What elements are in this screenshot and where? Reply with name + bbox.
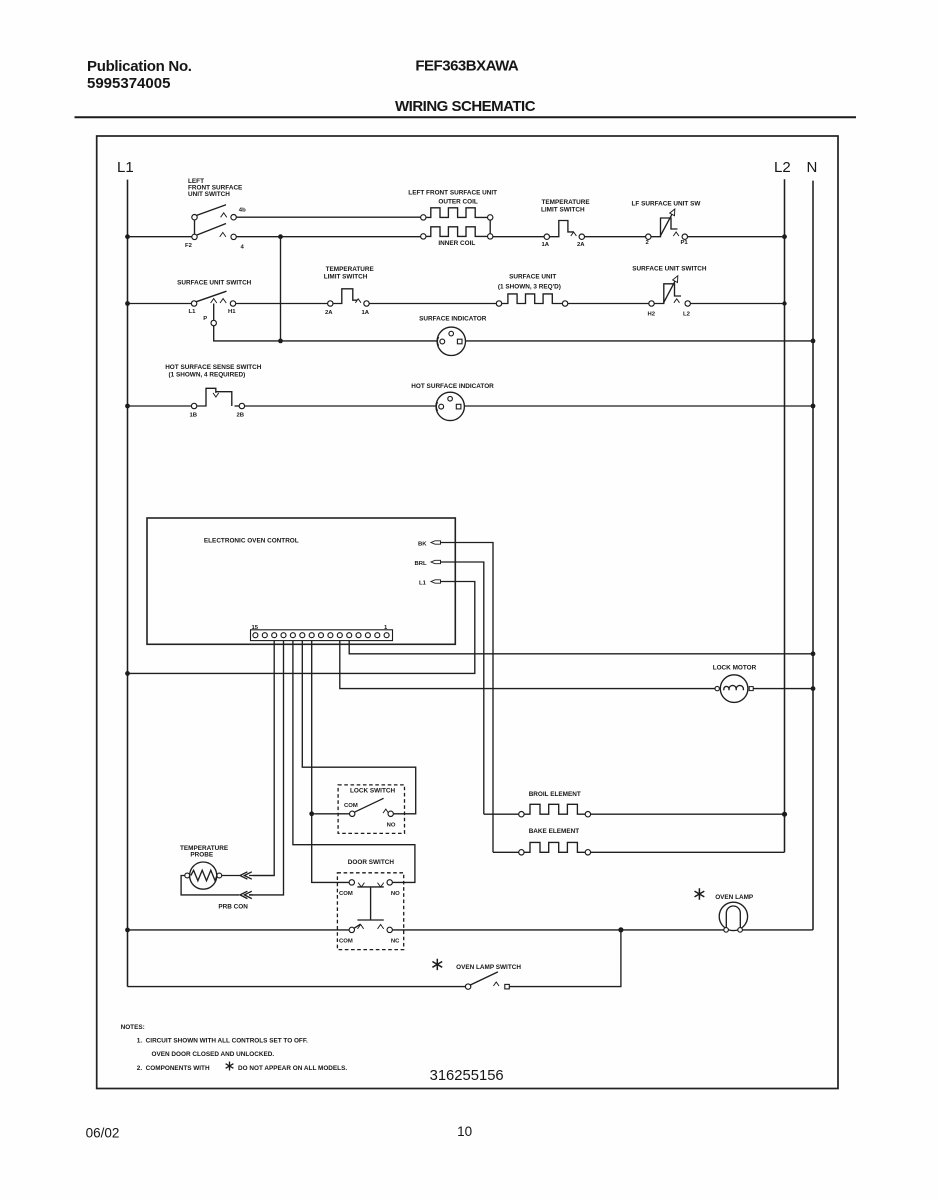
wire row3 hot surface line: [128, 405, 814, 407]
svg-text:TEMPERATURE: TEMPERATURE: [326, 266, 375, 273]
wire probe upper line chevron gap fill: [222, 875, 275, 877]
wire pin10 to lock switch NO: [302, 641, 415, 814]
junction oven lamp line at L1: [125, 928, 130, 933]
connector PRB CON chevrons: [218, 872, 251, 911]
svg-text:OVEN LAMP SWITCH: OVEN LAMP SWITCH: [456, 964, 521, 971]
wire P branch down to indicator line: [214, 304, 281, 341]
svg-text:1B: 1B: [190, 413, 198, 419]
wire oven lamp line from L1 to N: [128, 929, 812, 931]
svg-text:HOT SURFACE SENSE SWITCH: HOT SURFACE SENSE SWITCH: [165, 364, 262, 371]
resistor broil element: [484, 791, 785, 817]
pin 2: [375, 633, 380, 638]
pin 3: [365, 633, 370, 638]
svg-text:(1 SHOWN, 3 REQ'D): (1 SHOWN, 3 REQ'D): [498, 283, 561, 290]
asterisk for oven lamp: [695, 888, 705, 899]
svg-text:BK: BK: [418, 541, 427, 547]
wire surface indicator line to N: [281, 340, 814, 342]
svg-text:WIRING SCHEMATIC: WIRING SCHEMATIC: [395, 98, 536, 115]
svg-text:DOOR SWITCH: DOOR SWITCH: [348, 859, 395, 866]
svg-text:H2: H2: [648, 311, 656, 317]
svg-text:Publication No.: Publication No.: [87, 58, 192, 75]
svg-text:H1: H1: [228, 309, 236, 315]
junction row3 at N: [811, 404, 816, 409]
switch temperature limit switch row2: [324, 266, 375, 306]
svg-text:(1 SHOWN, 4 REQUIRED): (1 SHOWN, 4 REQUIRED): [169, 372, 246, 379]
junction pin9 wire at lock switch COM line: [309, 811, 314, 816]
wire L1 rail: [127, 180, 129, 987]
svg-text:NO: NO: [387, 823, 396, 829]
svg-text:06/02: 06/02: [86, 1126, 120, 1141]
asterisk for oven lamp switch: [432, 959, 442, 970]
wire BRL down to broil line: [441, 562, 484, 814]
junction row2 at L2: [782, 301, 786, 305]
motor lock motor: [713, 665, 757, 703]
junction row3 at L1: [125, 404, 130, 409]
switch lock switch: [314, 785, 404, 834]
pin 5: [347, 633, 352, 638]
wire L1 output down and left to L1 rail: [128, 582, 475, 674]
svg-text:NOTES:: NOTES:: [121, 1024, 145, 1031]
svg-text:NO: NO: [391, 891, 400, 897]
svg-text:PRB CON: PRB CON: [218, 903, 248, 910]
svg-text:5995374005: 5995374005: [87, 75, 170, 92]
svg-text:NC: NC: [391, 938, 400, 944]
svg-text:P: P: [203, 316, 207, 322]
asterisk in note 2: [226, 1062, 234, 1071]
svg-text:LOCK SWITCH: LOCK SWITCH: [350, 787, 395, 794]
pin 4: [356, 633, 361, 638]
svg-text:DO NOT APPEAR ON ALL MODELS.: DO NOT APPEAR ON ALL MODELS.: [238, 1065, 347, 1072]
svg-text:LEFT FRONT SURFACE UNIT: LEFT FRONT SURFACE UNIT: [408, 190, 497, 197]
wire vertical from row1 junction to indicator line: [280, 237, 282, 341]
svg-text:15: 15: [252, 625, 259, 631]
junction surface indicator line at N: [811, 339, 816, 344]
svg-text:COM: COM: [339, 938, 353, 944]
svg-text:OVEN LAMP: OVEN LAMP: [715, 894, 754, 901]
wire pin9 to door switch COM: [312, 641, 349, 883]
terminal P contact: [211, 320, 216, 325]
svg-text:2A: 2A: [577, 242, 585, 248]
header rule: [75, 116, 857, 118]
wire row1 upper branch to outer coil: [236, 216, 420, 218]
resistor left front surface unit outer coil: [408, 190, 497, 220]
svg-text:COM: COM: [339, 891, 353, 897]
svg-text:2A: 2A: [325, 310, 333, 316]
connector BK output: [418, 541, 441, 548]
pin 14: [262, 633, 267, 638]
svg-text:LOCK MOTOR: LOCK MOTOR: [713, 665, 757, 672]
switch LF surface unit sw: [632, 201, 702, 240]
svg-text:2. COMPONENTS WITH: 2. COMPONENTS WITH: [137, 1065, 210, 1072]
wire pin11 to door switch NO: [293, 641, 415, 883]
pin 12: [281, 633, 286, 638]
junction oven lamp switch riser at lamp line: [618, 927, 623, 932]
svg-text:HOT SURFACE INDICATOR: HOT SURFACE INDICATOR: [411, 383, 494, 390]
wire pin12 to probe left: [181, 641, 283, 895]
svg-text:SURFACE INDICATOR: SURFACE INDICATOR: [419, 316, 487, 323]
pin 6: [337, 633, 342, 638]
svg-text:N: N: [807, 159, 818, 176]
svg-text:P1: P1: [681, 240, 689, 246]
connector BRL output: [415, 560, 441, 567]
svg-text:BAKE ELEMENT: BAKE ELEMENT: [529, 828, 580, 835]
switch oven lamp switch: [128, 930, 621, 989]
svg-text:L1: L1: [419, 580, 427, 586]
pin 1: [384, 633, 389, 638]
pin 8: [319, 633, 324, 638]
lamp hot surface indicator: [411, 383, 494, 421]
svg-text:UNIT SWITCH: UNIT SWITCH: [188, 191, 230, 198]
svg-text:ELECTRONIC OVEN CONTROL: ELECTRONIC OVEN CONTROL: [204, 538, 299, 545]
header publication number: [87, 58, 192, 92]
wire pin13 to probe right: [249, 641, 274, 876]
wire pin6 to lock motor line: [340, 641, 813, 689]
connector L1 output: [419, 580, 441, 587]
wire joining coil right terminals: [489, 220, 491, 234]
svg-text:SURFACE UNIT: SURFACE UNIT: [509, 274, 556, 281]
wire probe lower line chevron gap fill: [249, 894, 253, 896]
svg-text:LIMIT SWITCH: LIMIT SWITCH: [324, 273, 368, 280]
junction pin5 wire at N: [811, 651, 816, 656]
pin 15: [253, 633, 258, 638]
wire pin5 to N rail: [349, 641, 813, 654]
svg-text:1A: 1A: [542, 242, 550, 248]
svg-text:L1: L1: [189, 309, 197, 315]
svg-text:4b: 4b: [239, 208, 246, 214]
svg-text:INNER COIL: INNER COIL: [438, 240, 475, 247]
electronic oven control box: [147, 518, 455, 644]
resistor left front surface unit inner coil: [421, 227, 493, 247]
junction row1 at L2: [782, 234, 787, 239]
wire N rail: [812, 181, 814, 930]
svg-text:SURFACE UNIT SWITCH: SURFACE UNIT SWITCH: [177, 280, 252, 287]
svg-text:LIMIT SWITCH: LIMIT SWITCH: [541, 206, 585, 213]
switch temperature limit switch row1: [541, 199, 590, 239]
svg-text:PROBE: PROBE: [190, 851, 213, 858]
switch surface unit switch row2 right: [632, 266, 707, 307]
notes text: [121, 1024, 348, 1072]
pin 11: [290, 633, 295, 638]
svg-text:316255156: 316255156: [430, 1068, 504, 1084]
switch door switch: [337, 859, 403, 950]
switch left front surface unit switch (double pole): [188, 178, 243, 239]
svg-text:2B: 2B: [237, 413, 245, 419]
pin 13: [272, 633, 277, 638]
resistor bake element: [493, 828, 785, 855]
svg-text:F2: F2: [185, 243, 193, 249]
svg-text:L1: L1: [117, 159, 134, 176]
junction lock motor line at N: [811, 686, 816, 691]
wire row2 main: [128, 303, 785, 305]
connector strip P1 header: [251, 625, 393, 641]
svg-text:1A: 1A: [362, 310, 370, 316]
svg-text:10: 10: [457, 1124, 472, 1139]
resistor temperature probe: [180, 845, 229, 889]
schematic border frame: [97, 136, 838, 1089]
svg-text:FEF363BXAWA: FEF363BXAWA: [415, 58, 519, 75]
svg-text:OUTER COIL: OUTER COIL: [438, 199, 478, 206]
junction row2 at L1: [125, 301, 130, 306]
svg-text:L2: L2: [683, 311, 691, 317]
svg-text:OVEN DOOR CLOSED AND UNLOCKED.: OVEN DOOR CLOSED AND UNLOCKED.: [152, 1051, 275, 1058]
wire row1 main L1 to L2: [128, 236, 785, 238]
pin 9: [309, 633, 314, 638]
svg-text:BROIL ELEMENT: BROIL ELEMENT: [529, 791, 581, 798]
junction at 280.5 341: [278, 339, 283, 344]
lamp surface indicator: [419, 316, 487, 356]
switch surface unit switch row2 left: [177, 280, 252, 307]
junction row1 at x=280.5: [278, 234, 283, 239]
junction broil line at L2: [782, 812, 787, 817]
svg-text:BRL: BRL: [415, 561, 428, 567]
svg-text:L2: L2: [774, 159, 791, 176]
svg-text:TEMPERATURE: TEMPERATURE: [542, 199, 591, 206]
pin 7: [328, 633, 333, 638]
pin 10: [300, 633, 305, 638]
svg-text:LF SURFACE UNIT SW: LF SURFACE UNIT SW: [632, 201, 702, 208]
junction L1 output wire at L1 rail: [125, 671, 130, 676]
junction row1 at L1: [125, 234, 130, 239]
resistor surface unit row2: [496, 274, 568, 306]
svg-text:1. CIRCUIT SHOWN WITH ALL CON: 1. CIRCUIT SHOWN WITH ALL CONTROLS SET T…: [137, 1038, 308, 1045]
wire BK to N rail via bake? no: BK to x493 down to bake line: [441, 543, 494, 853]
lamp oven lamp: [715, 894, 754, 932]
wire L2 rail: [784, 179, 786, 852]
switch hot surface sense switch: [165, 364, 262, 409]
svg-text:COM: COM: [344, 803, 358, 809]
svg-text:SURFACE UNIT SWITCH: SURFACE UNIT SWITCH: [632, 266, 707, 273]
